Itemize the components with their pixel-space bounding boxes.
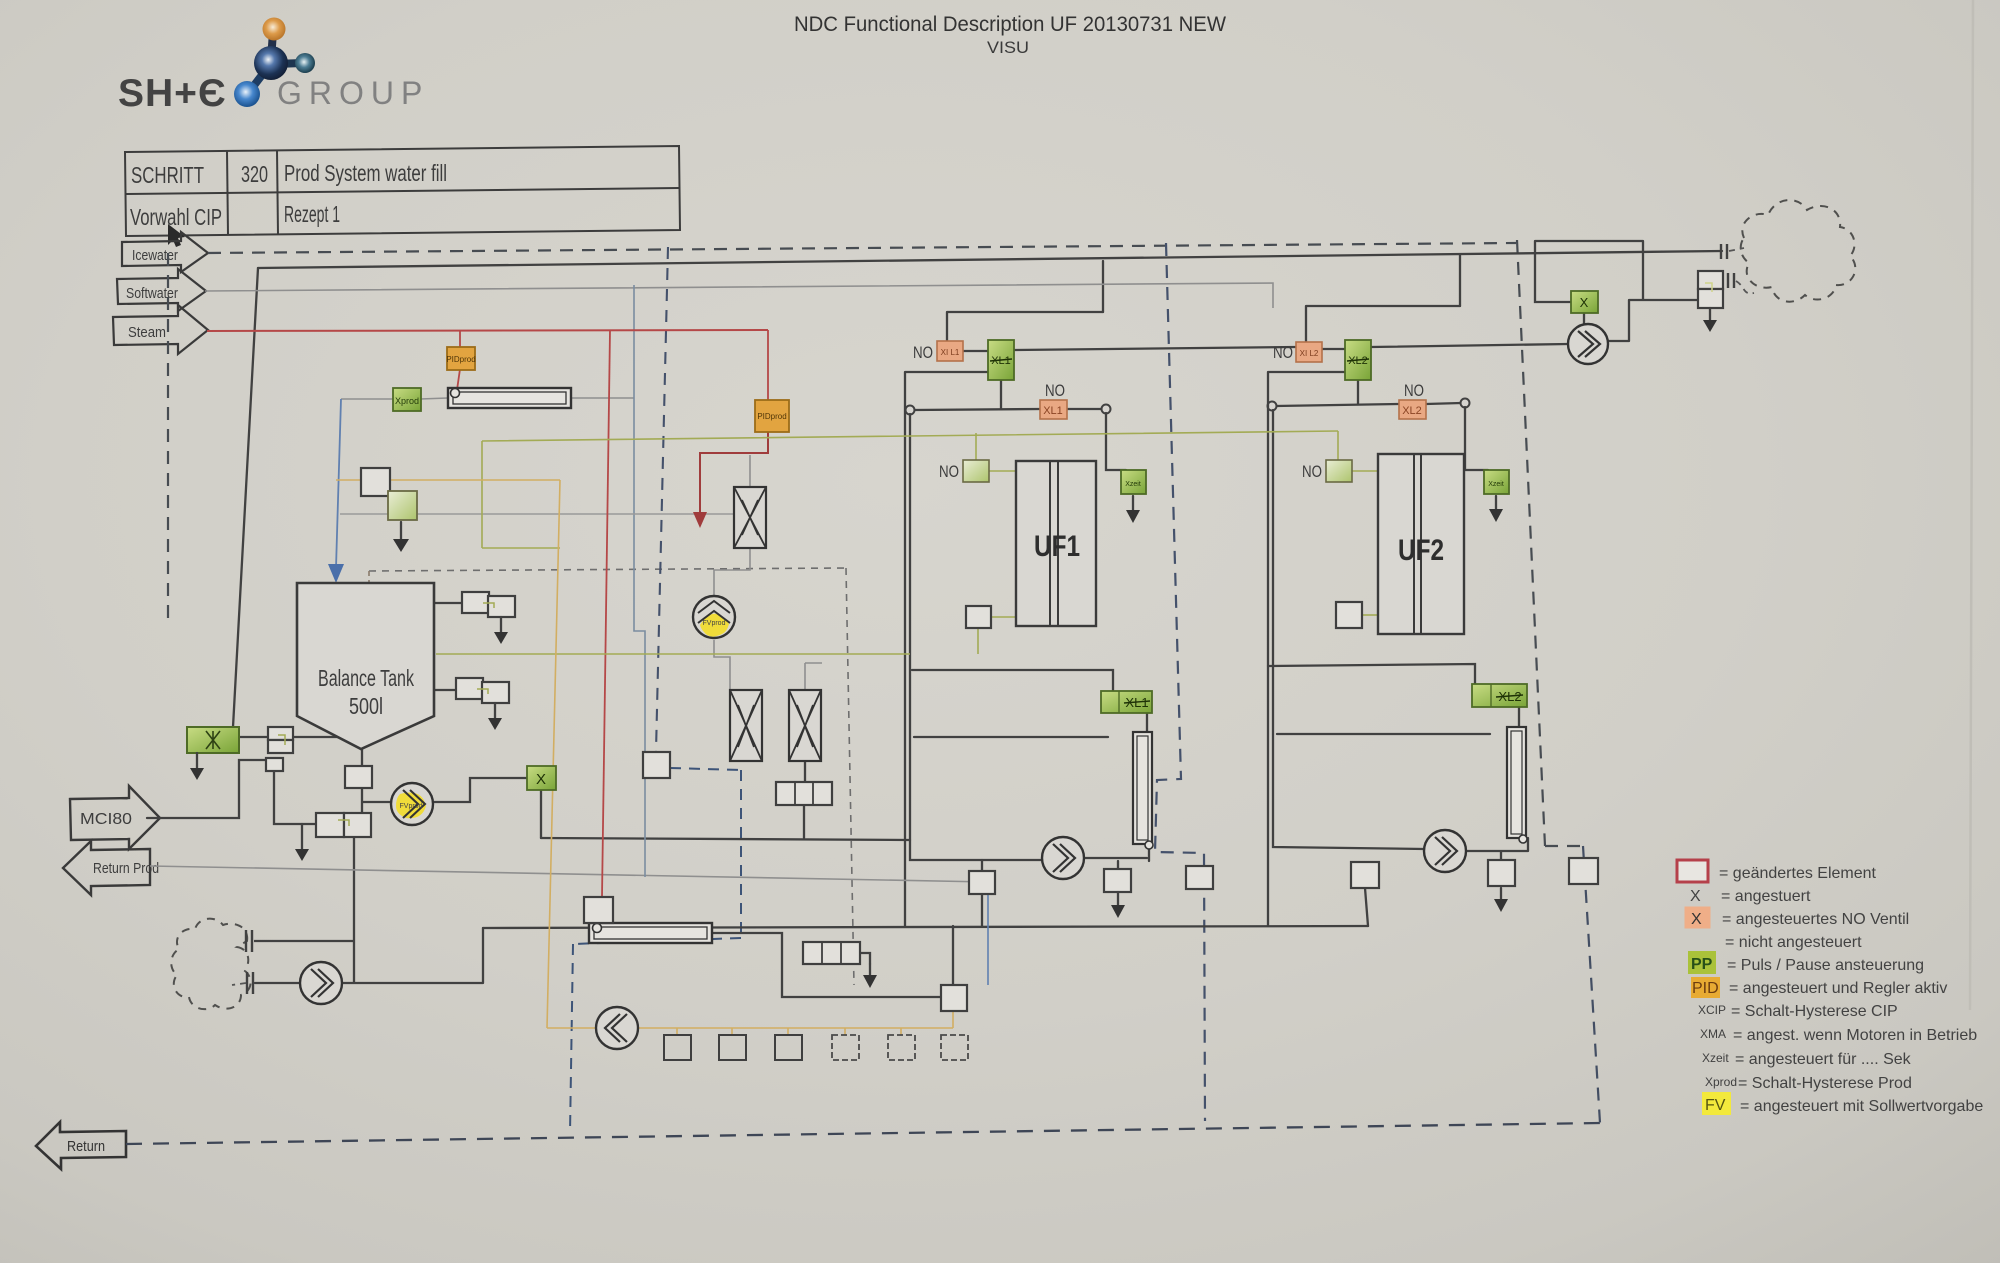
UF1 block [1016, 461, 1096, 626]
svg-text:= Schalt-Hysterese CIP: = Schalt-Hysterese CIP [1731, 1003, 1898, 1020]
node circle UF1 left [906, 406, 915, 415]
wire olive tank row [436, 653, 910, 655]
node circle UF1 right [1102, 405, 1111, 414]
wire UF1 pump feed [910, 414, 1042, 860]
wire valve XL1 bottom [1000, 380, 1002, 409]
PIDprod box 1 [446, 347, 475, 370]
wire node to drain box UF1 [1106, 413, 1126, 470]
pump top right [1568, 324, 1608, 364]
svg-text:PID: PID [1692, 980, 1719, 997]
white box + green box pair upper left [361, 468, 417, 520]
wire olive NO box to UF2 [1352, 470, 1378, 472]
svg-text:FVprod: FVprod [400, 803, 423, 810]
capacitor main line end [1721, 244, 1727, 259]
arrow red down [693, 512, 707, 528]
svg-text:320: 320 [241, 161, 268, 187]
svg-text:PIDprod: PIDprod [757, 412, 786, 421]
svg-text:= Schalt-Hysterese Prod: = Schalt-Hysterese Prod [1738, 1075, 1912, 1092]
table SCHRITT/Vorwahl frame [125, 146, 680, 236]
wire main top [258, 251, 1722, 268]
wire UF2 pump feed [1273, 410, 1424, 849]
arrow Return [36, 1122, 126, 1169]
wire olive long mid [482, 431, 1338, 548]
wire green valve to boxes [240, 736, 339, 738]
arrow 3part box 2 [863, 964, 877, 988]
wire long valve row UF1-UF2 [1014, 344, 1568, 350]
valve boxes pair tank upper [462, 592, 515, 617]
wire top right loop [1535, 241, 1698, 341]
pump UF1 [1042, 837, 1084, 879]
wire XL2 box to filter [1518, 707, 1520, 727]
legend red box [1677, 860, 1708, 882]
valve boxes stack left of tank [268, 727, 293, 753]
wire blue to tank [336, 399, 341, 568]
box P12 under pump line [969, 871, 995, 894]
svg-text:XCIP: XCIP [1698, 1003, 1726, 1017]
svg-text:Xzeit: Xzeit [1125, 481, 1141, 488]
pink box XI L2 [1296, 342, 1322, 362]
dashed box row 1 [664, 1035, 691, 1060]
wire tan horizontal [336, 479, 560, 481]
green drain box UF2 [1484, 470, 1509, 494]
wire UF2 y372 branch [1268, 372, 1345, 926]
svg-text:FV: FV [1705, 1097, 1726, 1114]
dashed gray horizontal mid [369, 568, 846, 571]
big green valve left [187, 727, 239, 753]
wire boxes below tank to pumpD [342, 838, 483, 983]
arrow below tank boxes [295, 824, 309, 861]
arrow Softwater [117, 269, 206, 311]
wire UF1 node row [914, 409, 1102, 410]
arrow Return Prod [63, 841, 159, 895]
balance tank [297, 583, 434, 749]
wire tan box row [638, 1027, 953, 1029]
dashed blue vertical (valve drain) [656, 247, 668, 751]
box P13 filter drain [1104, 869, 1131, 892]
wire X box down to y838 [540, 790, 542, 838]
pump UF2 [1424, 830, 1466, 872]
box on blue dashed P8 [643, 752, 670, 778]
wire valve2 to 3part box [804, 761, 806, 782]
green valve XL1 tall [988, 340, 1014, 380]
wire pumpB to filter2 [1466, 838, 1528, 860]
svg-text:= angestuert: = angestuert [1721, 888, 1811, 905]
arrow tank upper boxes [494, 617, 508, 644]
arrow blue into tank [328, 564, 344, 583]
pump CIP bottom [596, 1007, 638, 1049]
legend PP box [1688, 951, 1716, 974]
green XL1 wide box [1101, 691, 1152, 713]
legend FV box [1702, 1092, 1731, 1115]
wire up to box UF2 drain [1365, 888, 1368, 926]
svg-text:XMA: XMA [1700, 1027, 1726, 1041]
svg-text:NO: NO [939, 462, 959, 481]
wire pumpA drain box stubs [981, 860, 983, 926]
svg-text:500l: 500l [349, 693, 383, 719]
box P11b UF2 [1336, 602, 1362, 628]
dashed blue horizontal to left [573, 938, 741, 944]
box P16 [1488, 860, 1515, 886]
wire olive drop NO UF2 [1337, 431, 1339, 460]
wire left drop to valve [233, 268, 258, 727]
svg-text:= angesteuert und Regler akt: = angesteuert und Regler aktiv [1729, 980, 1947, 997]
wire filter1 down [1148, 848, 1150, 861]
wire bar1 to blue vertical [571, 397, 634, 399]
svg-text:= angesteuert mit Sollwertvo: = angesteuert mit Sollwertvorgabe [1740, 1098, 1983, 1115]
pink box XL1 [1040, 400, 1067, 419]
green drain box UF1 [1121, 470, 1146, 494]
heat exchanger bar 1 [448, 388, 571, 408]
wire UF1 loop top [947, 312, 1103, 341]
UF2 block [1378, 454, 1464, 634]
filter column UF1 [1133, 732, 1153, 849]
wire red PIDprod2 [767, 330, 769, 400]
dashed box row 2 [719, 1035, 746, 1060]
svg-text:= geändertes Element: = geändertes Element [1719, 865, 1877, 882]
capacitor stacked box [1728, 273, 1734, 288]
wire blue drop right [987, 882, 989, 985]
X green box mid left [527, 766, 556, 790]
box below tank [345, 766, 372, 788]
valve bowtie V1 [730, 690, 762, 761]
wire 3part box down [803, 805, 805, 838]
green valve XL2 tall [1345, 340, 1371, 380]
dashed blue elbow box to valve [670, 768, 741, 770]
dashed cloud bottom left [171, 919, 354, 1010]
svg-text:Xprod: Xprod [1705, 1075, 1737, 1089]
dashed blue vertical down to return [570, 944, 573, 1133]
green XL2 wide box [1472, 684, 1527, 707]
dashed vertical far right lower [1583, 846, 1600, 1123]
svg-text:X: X [1691, 911, 1702, 928]
pump bottom left [300, 962, 342, 1004]
svg-text:Return: Return [67, 1138, 105, 1155]
wire tank bottom to box [362, 749, 391, 813]
svg-text:X: X [1580, 295, 1589, 310]
wire UF2 node row [1276, 403, 1461, 406]
wire olive box to UF1 bottom [978, 617, 1016, 654]
box P15 [1351, 862, 1379, 888]
logo molecule orange ball [263, 18, 286, 41]
svg-text:MCI80: MCI80 [80, 811, 132, 828]
arrow below drain UF1 [1126, 496, 1140, 523]
wire olive box to UF2 bottom [1362, 614, 1378, 616]
svg-text:UF1: UF1 [1034, 530, 1080, 563]
svg-text:XI L2: XI L2 [1300, 349, 1319, 358]
wire pumpA to filter [1085, 857, 1147, 859]
node circle UF2 right [1461, 399, 1470, 408]
wire red PIDprod1 [457, 330, 460, 390]
svg-text:SCHRITT: SCHRITT [131, 162, 204, 188]
wire gray V3 elbows [714, 455, 822, 690]
wire bottom long [483, 926, 1368, 928]
svg-text:Return Prod: Return Prod [93, 860, 159, 877]
capacitor pumpD [247, 972, 253, 994]
arrow below stacked boxes [1703, 308, 1717, 332]
svg-text:= angest. wenn Motoren in Be: = angest. wenn Motoren in Betrieb [1733, 1027, 1977, 1044]
svg-text:= angesteuertes NO Ventil: = angesteuertes NO Ventil [1722, 911, 1909, 928]
node circle UF2 left [1268, 402, 1277, 411]
pump FVprod 2 [693, 596, 735, 638]
3part box 1 [776, 782, 832, 805]
pump FVprod 1 [391, 783, 433, 825]
valve boxes pair below tank [316, 813, 371, 837]
dashed box row 6 [941, 1035, 968, 1060]
svg-text:Vorwahl CIP: Vorwahl CIP [130, 204, 222, 230]
logo molecule connector navy-blue [249, 75, 262, 92]
Xprod green box [393, 388, 421, 411]
wire feed UF1 loop [1102, 261, 1104, 312]
arrow below green grad box [393, 522, 409, 552]
PIDprod box 2 [755, 400, 789, 432]
legend salmon box [1685, 907, 1710, 928]
heat exchanger bar 2 [589, 923, 712, 943]
logo molecule connector orange-navy [271, 32, 273, 60]
wire UF1 y372 branch [905, 372, 988, 926]
wire gray mid y514 [340, 513, 734, 515]
svg-text:= nicht angesteuert: = nicht angesteuert [1725, 934, 1862, 951]
dashed blue return line [126, 1123, 1600, 1144]
dashed border left [167, 253, 169, 618]
pink box XL2 [1399, 400, 1426, 419]
wire UF1 inner horizontal [914, 736, 1108, 738]
wire tan vertical long [547, 480, 560, 1028]
svg-text:GROUP: GROUP [277, 75, 429, 111]
arrow MCI80 [70, 786, 160, 849]
svg-text:NO: NO [1302, 462, 1322, 481]
svg-text:= angesteuert für .... Sek: = angesteuert für .... Sek [1735, 1051, 1912, 1068]
box P11 UF1 [966, 606, 991, 628]
wire MCI80 path [147, 760, 266, 818]
wire steam red [207, 330, 768, 331]
dashed gray vertical mid [846, 568, 854, 985]
wire box P10 up [952, 926, 954, 985]
svg-text:Xzeit: Xzeit [1488, 481, 1504, 488]
wire UF2 loop top [1306, 306, 1460, 342]
wire softwater gray [205, 283, 1273, 308]
wire XL1 box to filter [1146, 712, 1148, 732]
svg-text:Xprod: Xprod [395, 396, 419, 406]
dashed jog right [1545, 845, 1583, 847]
filter column UF2 [1507, 727, 1527, 843]
box red end P9 [584, 897, 613, 923]
wire UF2 inner horizontal [1277, 733, 1490, 735]
wire dash capacitor to cloud left [232, 983, 246, 985]
wire tank stub lower [434, 689, 456, 691]
dashed box row 3 [775, 1035, 802, 1060]
wire tank stub upper [434, 602, 462, 604]
wire bar2 path right [712, 933, 941, 997]
wire UF1 lower loop [912, 670, 1113, 691]
logo molecule teal ball [295, 53, 315, 73]
wire red elbow arrow [700, 432, 768, 514]
logo molecule connector navy-teal [275, 63, 303, 64]
wire olive NO box to UF1 [989, 470, 1016, 472]
wire filter1 box stub [1117, 861, 1119, 869]
dashed box row 5 [888, 1035, 915, 1060]
box P10 [941, 985, 967, 1011]
wire dashes to cloud 1 [1729, 248, 1744, 251]
X green box top right [1571, 291, 1598, 313]
svg-text:SH+Є: SH+Є [118, 72, 227, 115]
box P17 [1569, 858, 1598, 884]
svg-text:= Puls / Pause ansteuerung: = Puls / Pause ansteuerung [1727, 957, 1924, 974]
svg-text:Icewater: Icewater [132, 247, 178, 264]
svg-text:X: X [1690, 888, 1701, 905]
NO grad box UF1 [963, 460, 989, 482]
svg-text:XL1: XL1 [1043, 405, 1063, 417]
small box MCI junction [266, 758, 316, 824]
valve bowtie V2 [789, 690, 821, 761]
svg-text:FVprod: FVprod [703, 620, 726, 627]
arrow tank lower boxes [488, 703, 502, 730]
svg-text:Xzeit: Xzeit [1702, 1051, 1729, 1065]
svg-text:UF2: UF2 [1398, 534, 1444, 567]
dashed box row 4 [832, 1035, 859, 1060]
svg-text:NO: NO [1273, 343, 1293, 362]
dashed blue vertical below valve [740, 770, 742, 936]
dashed vertical mid-right [1155, 243, 1205, 1121]
svg-text:XI L1: XI L1 [941, 348, 960, 357]
svg-text:Balance Tank: Balance Tank [318, 665, 414, 691]
wire tan to pumpE [547, 1027, 596, 1029]
box P14 [1186, 866, 1213, 889]
pink box XI L1 [937, 341, 963, 361]
arrow below P13 [1111, 892, 1125, 918]
logo molecule blue ball [234, 81, 260, 107]
wire node to drain box UF2 [1465, 407, 1488, 470]
paper edge line right [1970, 0, 1973, 1010]
wire xprod gray left [341, 398, 448, 399]
wire 3part2 arrow stub [860, 953, 870, 964]
dashed cloud top right [1741, 200, 1856, 302]
svg-text:Steam: Steam [128, 324, 166, 341]
arrow Icewater [122, 232, 208, 272]
legend PID box [1691, 977, 1720, 998]
dashed border right [1517, 240, 1545, 846]
wire tan stubs [677, 1011, 953, 1035]
arrow below P16 [1494, 888, 1508, 912]
dashed border top (Icewater line) [208, 243, 1516, 253]
wire blue vertical mid [634, 285, 645, 877]
arrow Steam [113, 305, 208, 354]
wire capacitor to pumpD [255, 982, 300, 984]
arrow below drain UF2 [1489, 496, 1503, 522]
mouse cursor [168, 224, 185, 247]
svg-text:NO: NO [913, 343, 933, 362]
svg-text:Prod System water fill: Prod System water fill [284, 160, 447, 186]
svg-text:Softwater: Softwater [126, 285, 178, 302]
arrow below green valve [190, 753, 204, 780]
wire UF2 lower loop [1268, 664, 1475, 684]
wire red drop to box P9 [602, 330, 610, 897]
svg-text:PP: PP [1691, 956, 1713, 973]
NO grad box UF2 [1326, 460, 1352, 482]
svg-text:NO: NO [1045, 381, 1065, 400]
wire olive drop NO UF1 [975, 433, 977, 460]
valve bowtie V3 [734, 487, 766, 548]
wire dashes to cloud 2 [1736, 281, 1754, 293]
svg-text:NO: NO [1404, 381, 1424, 400]
stacked boxes top right [1698, 271, 1723, 308]
wire pumpFV1 to X box [434, 778, 527, 802]
svg-text:XL2: XL2 [1402, 405, 1422, 417]
wire valve XL2 bottom [1357, 380, 1359, 404]
wire pink to valve UF1 [963, 350, 988, 352]
svg-text:X: X [536, 771, 546, 788]
valve boxes pair tank lower [456, 678, 509, 703]
3part box 2 [803, 942, 860, 964]
svg-text:Rezept 1: Rezept 1 [284, 201, 340, 227]
wire return prod gray [150, 866, 988, 882]
wire feed UF2 loop [1459, 255, 1461, 306]
dashed stub into tank with pink arrow [364, 571, 374, 610]
svg-text:PIDprod: PIDprod [446, 355, 475, 364]
logo molecule navy ball [254, 46, 288, 80]
svg-text:NDC Functional Description UF: NDC Functional Description UF 20130731 N… [794, 13, 1226, 36]
wire y838 long [541, 838, 910, 840]
svg-text:VISU: VISU [987, 38, 1029, 57]
